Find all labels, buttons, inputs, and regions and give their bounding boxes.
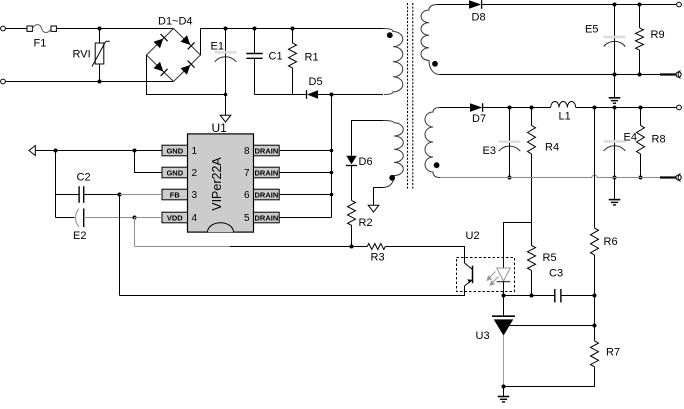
svg-text:E1: E1 <box>211 40 224 52</box>
svg-text:D8: D8 <box>472 12 486 24</box>
U1 pin 7 box (DRAIN) <box>244 167 279 179</box>
svg-text:VIPer22A: VIPer22A <box>210 157 224 211</box>
wire (R4 jog to opto LED) <box>504 223 532 259</box>
wire (+out2 rail b) <box>576 107 677 109</box>
transformer secondary 1 winding (top) <box>421 5 440 75</box>
node junction E1 bottom <box>224 93 228 97</box>
node junction anode/R7 <box>502 385 506 389</box>
inductor L1 <box>551 101 576 122</box>
aux phase dot <box>389 175 395 181</box>
node junction <box>133 149 137 153</box>
svg-text:D1~D4: D1~D4 <box>158 16 193 28</box>
node junction C1 top <box>253 27 257 31</box>
resistor R4 <box>528 108 560 223</box>
ground (output 1) <box>609 98 621 103</box>
U1 pin 8 box (DRAIN) <box>244 145 279 157</box>
resistor R5 <box>528 223 557 296</box>
capacitor C2 <box>56 172 120 203</box>
terminal +out2 <box>677 105 682 110</box>
ground (feedback) <box>498 397 510 402</box>
node junction R2/VDD <box>350 245 354 249</box>
wire (VDD drop, gray) <box>134 218 136 247</box>
node junction drain pin6 <box>330 193 334 197</box>
off-page arrow (primary GND) <box>29 146 35 156</box>
resistor R7 <box>591 341 621 367</box>
wire (to TL431 cathode) <box>503 296 505 317</box>
wire (left rail down) <box>55 151 57 218</box>
svg-text:R4: R4 <box>545 142 559 154</box>
svg-text:8: 8 <box>244 146 250 157</box>
wire (TL431 anode, gray) <box>503 336 505 387</box>
wire (VDD rail) <box>230 246 367 248</box>
diode D7 <box>470 103 486 125</box>
bridge diode bottom-right <box>181 61 195 75</box>
wire (fb node line) <box>504 295 555 297</box>
U1 pin 6 box (DRAIN) <box>244 189 279 201</box>
node junction R4 top <box>530 106 534 110</box>
svg-text:FB: FB <box>170 190 181 199</box>
node junction E3 bottom <box>508 176 512 180</box>
node junction R9 bottom <box>638 73 642 77</box>
wire (snubber rail) <box>255 94 307 96</box>
wire (VDD stub, gray) <box>135 217 163 219</box>
transformer core <box>408 3 413 189</box>
terminal out2 common <box>676 174 681 182</box>
resistor R9 <box>636 5 665 75</box>
wire (bridge DC+ up to bus) <box>201 29 226 56</box>
node junction (RVI top) <box>98 27 102 31</box>
wire (+out2 rail a) <box>483 107 551 109</box>
wire (E5 to ground) <box>614 75 616 98</box>
svg-text:E5: E5 <box>585 24 598 36</box>
bridge rectifier D1~D4 frame <box>147 16 201 82</box>
svg-text:E2: E2 <box>73 230 86 242</box>
svg-text:R3: R3 <box>371 252 385 264</box>
svg-text:R6: R6 <box>604 236 618 248</box>
wire (R3 to optocoupler) <box>385 247 464 259</box>
node junction (RVI bottom) <box>98 80 102 84</box>
svg-text:U3: U3 <box>476 330 490 342</box>
node junction feedback tap <box>593 106 597 110</box>
wire <box>5 28 27 30</box>
U1 label VIPer22A <box>210 157 224 211</box>
wire (DRAIN pin 7) <box>279 172 331 174</box>
wire (FB stub, gray) <box>120 194 163 196</box>
node junction R6/C3 <box>593 294 597 298</box>
wire <box>351 225 353 246</box>
IC U1 body <box>188 121 254 232</box>
U1 pin 3 box (FB) <box>162 189 198 201</box>
svg-text:C3: C3 <box>549 268 563 280</box>
node junction VDD branch <box>133 216 137 220</box>
wire (sec1 top) <box>438 4 470 6</box>
svg-text:R1: R1 <box>305 52 319 64</box>
node junction drain pin7 <box>330 171 334 175</box>
U2 LED <box>497 258 511 296</box>
node junction R1 top <box>291 27 295 31</box>
svg-text:U2: U2 <box>466 230 480 242</box>
terminal out1 return <box>676 71 681 79</box>
wire (R7 bottom) <box>504 367 595 387</box>
primary phase dot <box>387 32 393 38</box>
svg-text:D6: D6 <box>359 156 373 168</box>
node junction <box>54 149 58 153</box>
node junction R8 bottom <box>639 176 643 180</box>
capacitor E4 <box>604 108 637 178</box>
svg-text:L1: L1 <box>559 111 571 123</box>
ground (primary, open triangle) <box>220 95 231 123</box>
node junction E5 bottom <box>613 73 617 77</box>
U1 notch <box>208 223 234 232</box>
svg-text:7: 7 <box>244 168 250 179</box>
wire <box>5 81 173 83</box>
U1 pin 2 box (GND) <box>162 167 198 179</box>
svg-text:GND: GND <box>166 146 183 155</box>
node junction E5 top <box>613 3 617 7</box>
secondary 2 phase dot <box>434 162 440 168</box>
transformer secondary 2 winding (bottom) <box>425 108 440 178</box>
node junction FB branch <box>118 193 122 197</box>
diode D6 <box>346 152 373 169</box>
wire (out1 return) <box>440 74 676 76</box>
wire (aux top to D6) <box>352 121 384 152</box>
node junction R9 top <box>638 3 642 7</box>
wire (E4 to ground) <box>614 178 616 200</box>
svg-text:F1: F1 <box>34 38 47 50</box>
wire (sec2 top) <box>440 107 470 109</box>
wire <box>594 255 596 341</box>
wire (DRAIN pin 5) <box>279 217 331 219</box>
svg-text:GND: GND <box>166 168 183 177</box>
terminal +out1 <box>677 2 682 7</box>
wire (VDD rail gray part) <box>135 246 231 248</box>
svg-text:R7: R7 <box>606 347 620 359</box>
capacitor C3 <box>549 268 595 303</box>
capacitor E2 <box>56 209 135 243</box>
svg-text:5: 5 <box>244 213 250 224</box>
node junction E3 top <box>508 106 512 110</box>
svg-text:C1: C1 <box>269 51 283 63</box>
svg-text:D7: D7 <box>472 113 486 125</box>
ground (output 2) <box>609 200 621 205</box>
node junction drain pin8 <box>330 149 334 153</box>
svg-text:R5: R5 <box>543 252 557 264</box>
wire (FB line down) <box>119 195 121 296</box>
node junction E4 top <box>613 106 617 110</box>
diode D8 <box>469 0 486 23</box>
svg-text:D5: D5 <box>309 76 323 88</box>
resistor R1 (snubber) <box>289 29 319 95</box>
capacitor E1 (bulk electrolytic) <box>211 29 237 95</box>
wire (bridge DC- down) <box>147 55 226 95</box>
wire (out2 common) <box>440 175 676 177</box>
wire <box>56 28 173 30</box>
bridge diode top-left <box>154 34 168 48</box>
svg-text:U1: U1 <box>212 121 228 135</box>
terminal input N (bottom) <box>1 79 6 84</box>
svg-text:DRAIN: DRAIN <box>255 190 279 199</box>
svg-text:RVI: RVI <box>73 49 91 61</box>
node junction R5 bottom <box>530 294 534 298</box>
wire <box>351 166 353 201</box>
U1 pin 1 box (GND) <box>162 145 198 157</box>
svg-text:2: 2 <box>192 168 198 179</box>
svg-text:DRAIN: DRAIN <box>255 168 279 177</box>
secondary 1 phase dot <box>432 61 438 67</box>
svg-text:3: 3 <box>192 190 198 201</box>
capacitor C1 (snubber) <box>246 29 282 95</box>
wire (feedback drop) <box>594 108 596 229</box>
wire (drain bus vertical) <box>331 95 333 218</box>
svg-text:C2: C2 <box>77 172 91 184</box>
node junction TL431 ref <box>593 324 597 328</box>
node junction E4 bottom <box>613 176 617 180</box>
transformer primary winding <box>383 29 403 95</box>
svg-text:VDD: VDD <box>167 213 183 222</box>
svg-text:R8: R8 <box>652 134 666 146</box>
U2 phototransistor <box>465 258 473 288</box>
svg-text:E3: E3 <box>483 145 496 157</box>
U1 pin 5 box (DRAIN) <box>244 212 279 224</box>
wire (to GND pin2) <box>135 151 163 173</box>
fuse F1 <box>27 25 56 50</box>
capacitor E3 <box>483 108 521 178</box>
wire (DRAIN pin 8) <box>279 150 331 152</box>
wire (HV bus) <box>226 28 384 30</box>
svg-text:1: 1 <box>192 146 198 157</box>
resistor R3 <box>367 244 385 264</box>
svg-text:6: 6 <box>244 190 250 201</box>
node junction R8 top <box>639 106 643 110</box>
U1 pin 4 box (VDD) <box>162 212 198 224</box>
wire (anode to ground) <box>503 387 505 397</box>
resistor R6 <box>591 228 618 255</box>
U2 light arrows <box>487 272 499 286</box>
optocoupler U2 box <box>457 230 515 292</box>
svg-text:4: 4 <box>192 213 198 224</box>
wire (FB line across) <box>120 288 465 296</box>
ground (aux, open triangle) <box>368 205 379 212</box>
svg-text:DRAIN: DRAIN <box>255 213 279 222</box>
svg-text:R9: R9 <box>651 29 665 41</box>
node junction LED cathode <box>502 294 506 298</box>
terminal input L (top) <box>1 26 6 31</box>
capacitor E5 <box>585 5 626 75</box>
bridge diode top-right <box>181 35 195 49</box>
wire (+out1 rail) <box>482 4 677 6</box>
transformer aux winding <box>383 121 403 188</box>
resistor R8 <box>637 108 666 178</box>
svg-text:R2: R2 <box>359 217 373 229</box>
wire (GND rail) <box>35 150 162 152</box>
wire (DRAIN pin 6) <box>279 194 331 196</box>
svg-text:DRAIN: DRAIN <box>255 146 279 155</box>
node junction drain/D5 <box>330 93 334 97</box>
resistor R2 <box>348 200 373 229</box>
node junction E1 top <box>224 27 228 31</box>
shunt regulator U3 (TL431) <box>476 316 595 342</box>
diode D5 (clamp) <box>307 76 384 99</box>
wire (aux bottom return) <box>374 188 384 206</box>
varistor RVI <box>73 29 110 82</box>
svg-text:E4: E4 <box>624 132 637 144</box>
bridge diode bottom-left <box>154 62 168 76</box>
